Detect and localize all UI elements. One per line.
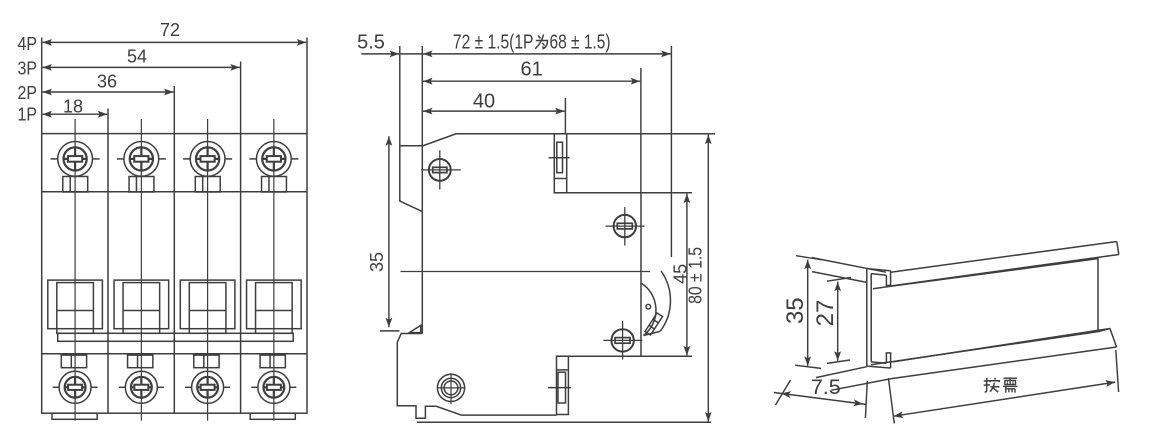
rail near-end bottom front edge bbox=[832, 379, 891, 390]
svg-text:4P: 4P bbox=[18, 34, 38, 54]
extension line x=565.4 (40) bbox=[564, 98, 566, 134]
extension line x=640.9 (61) bbox=[640, 68, 642, 193]
pole 2 center line bbox=[140, 119, 142, 421]
extension line 36 bbox=[173, 86, 175, 134]
svg-text:61: 61 bbox=[520, 59, 542, 81]
rail web bottom edge bbox=[871, 332, 1098, 365]
svg-text:36: 36 bbox=[97, 72, 117, 92]
front view dimensions bbox=[42, 38, 307, 134]
svg-text:7.5: 7.5 bbox=[811, 375, 841, 399]
screw terminal pole 2 bottom bbox=[119, 371, 164, 403]
side view dimensions bbox=[361, 46, 708, 422]
rail label 按需 bbox=[984, 378, 1000, 392]
extension line 54 bbox=[240, 62, 242, 134]
SIDE VIEW bbox=[397, 134, 715, 423]
rail dim 27 ticks bbox=[827, 278, 851, 282]
lower step face (45 bottom reference) bbox=[557, 355, 693, 357]
dimension line 72±1.5 bbox=[423, 53, 671, 55]
rail near-end top back edge bbox=[812, 258, 886, 273]
svg-text:1P: 1P bbox=[18, 104, 38, 124]
rail section bottom lip inner bbox=[871, 362, 886, 363]
glyph 需 bbox=[1004, 377, 1018, 379]
rail bottom flange front-top edge bbox=[893, 329, 1110, 362]
rail dimensions bbox=[774, 256, 1119, 424]
right face upper bbox=[640, 193, 642, 356]
svg-text:35: 35 bbox=[367, 252, 387, 272]
dimension line 18 bbox=[42, 113, 107, 115]
svg-text:80 ± 1.5: 80 ± 1.5 bbox=[686, 247, 706, 304]
rail dimension line 7.5 bbox=[774, 393, 866, 405]
pole divider 3 bbox=[240, 134, 242, 414]
rail web top edge bbox=[873, 259, 1098, 289]
rail dim 35 ticks bbox=[796, 256, 822, 260]
svg-text:35: 35 bbox=[782, 297, 809, 324]
dimension line 35 (vertical) bbox=[388, 136, 390, 327]
rail near-end bottom back edge bbox=[816, 367, 867, 378]
DIN hook pawl triangle bbox=[409, 325, 420, 332]
toggle handle pole 2 bbox=[114, 280, 169, 333]
toggle handle pole 1 bbox=[48, 280, 103, 333]
dim connector between ext lines bbox=[400, 53, 423, 55]
dimension line 72 bbox=[42, 41, 306, 43]
extension line 72 right bbox=[306, 38, 308, 134]
rail dim as-needed extension lines bbox=[888, 378, 894, 424]
35 bottom tick bbox=[380, 330, 400, 332]
rail web right cap bbox=[1097, 258, 1099, 332]
body centre line bbox=[401, 271, 651, 273]
extension line left (common) bbox=[41, 38, 43, 134]
toggle handle pole 3 bbox=[180, 280, 235, 333]
dimension line 5.5 bbox=[361, 53, 399, 55]
screw top-left bbox=[429, 159, 451, 181]
dimension line 61 bbox=[423, 80, 640, 82]
dimension line 80±1.5 (vertical) bbox=[707, 135, 709, 422]
rail dimension line 27 bbox=[837, 282, 839, 361]
dimension line 36 bbox=[42, 91, 173, 93]
screw terminal pole 3 top bbox=[183, 142, 232, 177]
screw right lower bbox=[611, 329, 633, 351]
step below hook bbox=[397, 334, 556, 419]
side view screws bbox=[421, 150, 644, 404]
extension line x=399.8 bbox=[399, 46, 401, 146]
svg-text:5.5: 5.5 bbox=[357, 32, 385, 54]
side view left mounting flange bbox=[400, 146, 423, 212]
pole 3 center line bbox=[207, 119, 209, 421]
horizontal line below top terminals bbox=[42, 191, 307, 193]
screw right upper bbox=[614, 215, 636, 237]
rail section web inner edge bbox=[870, 274, 872, 362]
front view body outline bbox=[42, 134, 307, 414]
terminal box pole 4 bottom bbox=[260, 355, 285, 368]
rail top flange right cap bbox=[1117, 242, 1119, 255]
svg-text:3P: 3P bbox=[18, 58, 38, 78]
side view top edge with right extension line bbox=[422, 134, 715, 146]
toggle handle pole 4 bbox=[247, 280, 302, 333]
rail section top lip inner bbox=[871, 274, 886, 276]
pole 4 center line bbox=[273, 119, 275, 421]
bottom tab pole 4 bbox=[250, 413, 295, 419]
screw terminal pole 1 top bbox=[51, 142, 100, 177]
terminal box pole 3 top bbox=[195, 177, 220, 193]
rail bottom flange step bbox=[1098, 329, 1110, 332]
svg-text:72: 72 bbox=[160, 20, 180, 40]
screw terminal pole 2 top bbox=[117, 142, 166, 177]
terminal box pole 3 bottom bbox=[194, 355, 219, 368]
lever hole bbox=[646, 304, 651, 309]
upper step face (45 top reference) bbox=[554, 192, 692, 194]
upper DIN clip box bbox=[554, 134, 566, 193]
terminal box pole 2 bottom bbox=[128, 355, 153, 368]
glyph 为 bbox=[535, 35, 547, 49]
lever tip wedge bbox=[645, 313, 663, 335]
rail section web outer edge bbox=[866, 269, 868, 367]
svg-text:27: 27 bbox=[812, 300, 839, 327]
svg-text:68 ± 1.5): 68 ± 1.5) bbox=[550, 32, 611, 54]
dimension line 40 bbox=[423, 110, 565, 112]
rail section bottom hook bbox=[886, 353, 890, 368]
dimension line 45 (vertical) bbox=[686, 194, 688, 356]
terminal box pole 4 top bbox=[262, 177, 287, 193]
svg-text:2P: 2P bbox=[18, 83, 38, 103]
rail dimension line 35 bbox=[807, 260, 809, 366]
lower DIN clip box bbox=[557, 356, 569, 414]
screw terminal pole 4 bottom bbox=[251, 371, 296, 403]
svg-text:40: 40 bbox=[473, 91, 495, 113]
dimension line 54 bbox=[42, 66, 240, 68]
svg-text:54: 54 bbox=[127, 47, 147, 67]
terminal box pole 2 top bbox=[129, 177, 154, 193]
svg-text:72 ± 1.5(1P: 72 ± 1.5(1P bbox=[453, 32, 534, 54]
rail dim 7.5 extension lines bbox=[776, 380, 791, 405]
terminal box pole 1 bottom bbox=[61, 355, 86, 368]
extension line x=671.4 (lever tip) bbox=[670, 46, 672, 257]
rail top flange band upper edge bbox=[891, 242, 1117, 273]
rail top flange band lower edge bbox=[891, 255, 1119, 287]
svg-text:18: 18 bbox=[63, 97, 83, 117]
lever swing arc bbox=[660, 271, 670, 331]
DIN RAIL VIEW bbox=[812, 242, 1119, 391]
glyph 按 bbox=[985, 378, 987, 392]
front view poles (repeated parts) bbox=[48, 119, 301, 421]
rail bottom flange front-bottom edge bbox=[891, 347, 1117, 379]
bottom reference line (80 bottom) bbox=[417, 421, 711, 423]
hole bottom-left bbox=[437, 374, 464, 401]
pole divider 1 bbox=[107, 134, 109, 414]
rail bottom flange right cap bbox=[1110, 329, 1117, 348]
toggle tie bar bbox=[58, 333, 294, 341]
rail section top lip outer bbox=[867, 269, 891, 271]
screw terminal pole 4 top bbox=[249, 142, 298, 177]
extension line 18 bbox=[107, 109, 109, 134]
rail near-end top front edge bbox=[812, 272, 867, 283]
rail section bottom lip outer bbox=[867, 366, 891, 368]
screw terminal pole 1 bottom bbox=[53, 371, 98, 403]
horizontal line above bottom terminals bbox=[42, 353, 307, 355]
extension line x=422.3 bbox=[421, 46, 423, 146]
lever cam arc bbox=[641, 283, 660, 335]
rail dimension line as-needed bbox=[894, 382, 1116, 416]
pole divider 2 bbox=[173, 134, 175, 414]
side view main left face bbox=[421, 146, 423, 334]
pole 1 center line bbox=[74, 119, 76, 421]
terminal box pole 1 top bbox=[63, 177, 88, 193]
screw terminal pole 3 bottom bbox=[185, 371, 230, 403]
bottom tab pole 1 bbox=[52, 413, 97, 419]
rail section top hook bbox=[886, 271, 890, 286]
